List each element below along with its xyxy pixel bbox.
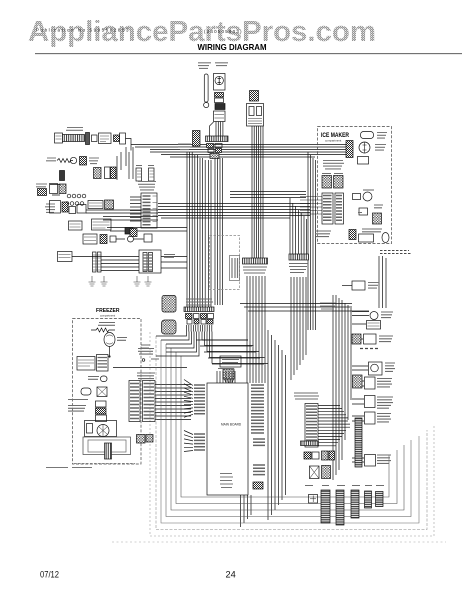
svg-text:FREEZER: FREEZER <box>96 308 120 314</box>
svg-text:24: 24 <box>226 569 236 579</box>
svg-text:Publication No 5995582853: Publication No 5995582853 <box>36 28 130 33</box>
svg-text:compartment: compartment <box>325 139 342 143</box>
svg-text:MAIN BOARD: MAIN BOARD <box>221 423 242 427</box>
svg-text:07/12: 07/12 <box>40 569 59 579</box>
svg-text:WIRING DIAGRAM: WIRING DIAGRAM <box>198 42 267 52</box>
svg-text:compartment: compartment <box>100 314 115 318</box>
svg-text:(240505803): (240505803) <box>204 29 243 34</box>
